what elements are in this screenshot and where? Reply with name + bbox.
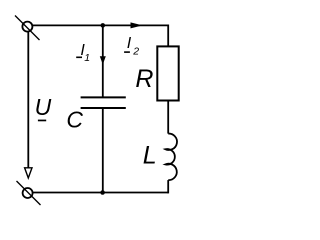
wire: capacitor branch upper segment [102,25,104,97]
wire: top horizontal from T1 to right corner [33,24,169,26]
svg-text:1: 1 [84,52,90,64]
label I2 [124,35,139,57]
node B (bottom junction dot) [100,190,105,195]
inductor L (three arcs bulging right) [165,134,177,181]
node A (top junction dot) [101,23,106,28]
current arrow I2 (on top wire, pointing right) [131,22,143,28]
svg-text:U: U [35,94,52,120]
resistor R (rectangle) [157,46,178,100]
terminal T2 (bottom-left input terminal) [17,181,41,205]
capacitor C (two plates) [81,97,126,108]
terminal T1 (top-left input terminal) [15,16,40,41]
wire: bottom horizontal from T2 to right corner [33,192,168,194]
svg-text:I: I [127,35,132,52]
svg-text:C: C [66,106,83,132]
current arrow I1 (on capacitor branch, pointing down) [100,56,106,64]
svg-text:L: L [143,142,157,170]
wire: resistor to inductor [167,101,169,134]
wire: right branch top drop (corner to resistor) [167,25,169,47]
svg-text:R: R [135,65,153,93]
svg-text:2: 2 [132,46,139,58]
voltage arrow U (left side, pointing down, open head) [25,32,32,178]
wire: inductor to bottom corner [167,180,169,193]
label U [35,94,52,121]
label I1 [76,42,90,64]
wire: capacitor branch lower segment [102,108,104,193]
